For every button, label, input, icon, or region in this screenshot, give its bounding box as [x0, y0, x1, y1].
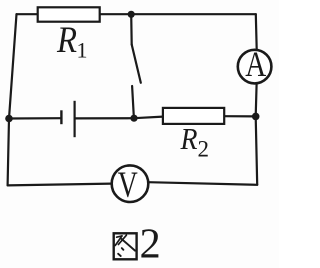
wire right upper — [255, 14, 258, 49]
wire bottom left — [8, 184, 112, 186]
svg-text:2: 2 — [198, 136, 210, 161]
voltmeter V1 circle — [112, 165, 149, 202]
svg-text:2: 2 — [140, 221, 161, 268]
caption glyph 图 box — [114, 233, 137, 259]
svg-text:V: V — [118, 165, 138, 206]
svg-text:A: A — [245, 44, 266, 84]
svg-text:R: R — [180, 121, 198, 156]
svg-text:1: 1 — [77, 38, 88, 63]
wire middle to R2 — [134, 117, 163, 119]
resistor R1 box — [38, 7, 100, 21]
switch upper lead — [130, 14, 133, 44]
battery long plate — [73, 101, 75, 137]
wire right lower — [256, 84, 258, 185]
caption glyph 图 inner strokes — [115, 235, 135, 256]
battery short plate — [60, 110, 62, 124]
wire middle left — [9, 117, 61, 120]
node: right middle junction — [252, 113, 260, 121]
resistor R2 box — [163, 108, 224, 124]
wire middle center — [75, 117, 134, 119]
wire bottom right — [149, 182, 258, 185]
svg-text:R: R — [56, 20, 77, 61]
wire left — [8, 14, 17, 185]
node: left middle junction — [5, 115, 13, 123]
node: top switch junction — [128, 11, 135, 18]
node: switch bottom junction — [130, 115, 137, 122]
wire top — [17, 13, 256, 15]
wire R2 to junction — [224, 115, 256, 117]
switch blade — [132, 45, 141, 83]
ammeter A1 circle — [238, 50, 272, 84]
switch lower lead — [132, 86, 134, 118]
